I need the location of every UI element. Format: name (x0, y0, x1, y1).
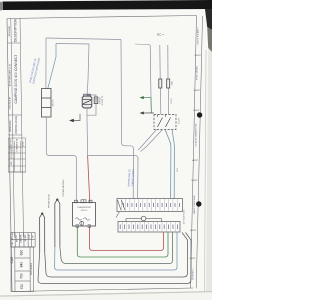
capacitor C1 (94, 97, 98, 104)
right margin strip (189, 16, 202, 289)
wire: motor bottom down (86, 108, 88, 119)
svg-text:840: 840 (20, 262, 24, 268)
svg-text:630: 630 (20, 250, 24, 256)
wire: inner loop top horizontal (56, 43, 89, 46)
long empty column (9, 171, 26, 173)
wire: outer loop right vertical and jog to strip (121, 40, 134, 199)
svg-text:REVISION: REVISION (9, 25, 11, 36)
svg-text:0.47uF: 0.47uF (99, 96, 101, 103)
wire: stub below strip X1 left end (116, 212, 120, 218)
svg-text:15A: 15A (171, 81, 174, 85)
title strip texts (rotated) (8, 18, 18, 134)
label: capacitor value (99, 95, 104, 105)
wire: red return (module to strip X2) (90, 226, 164, 251)
relay K2 (dashed box with contacts) (154, 115, 176, 130)
svg-text:DWG No: DWG No (12, 233, 14, 241)
wire: outer loop top horizontal (46, 38, 121, 40)
indicator A1 (meter circle) (141, 216, 146, 221)
wire: relay out to cyan pair 1 (165, 130, 171, 199)
module U1 (control thermostat) (73, 200, 96, 228)
wire: mid horizontal from motor line to strip entry (88, 156, 138, 199)
svg-text:4X0.75: 4X0.75 (53, 99, 55, 107)
wire: probe E2 right lead to strip X2 (60, 233, 173, 264)
drawing frame (7, 16, 197, 292)
arrow: supply tap upper (green) (140, 96, 152, 113)
svg-text:DATE: DATE (10, 147, 13, 153)
svg-text:12V DC: 12V DC (80, 210, 88, 212)
arrow: supply tap lower (140, 112, 155, 115)
svg-text:S3XX SERIES: S3XX SERIES (31, 262, 33, 275)
svg-text:CAD: CAD (10, 256, 14, 263)
svg-text:DC +: DC + (157, 33, 164, 37)
wire: probe E1 right lead long return (45, 233, 188, 278)
svg-text:12 POLE PLUG: 12 POLE PLUG (184, 209, 186, 224)
svg-text:CABLE 2.5MM TWIN: CABLE 2.5MM TWIN (193, 195, 196, 214)
wire: relay out diagonal to strip entry (138, 130, 157, 151)
svg-text:730: 730 (20, 273, 24, 279)
wire: inner loop left vertical with diagonal into connector (48, 44, 56, 89)
svg-text:WIRING DIAG: WIRING DIAG (14, 116, 18, 134)
bottom-left DWG table (11, 233, 35, 292)
svg-text:DRAWN GB: DRAWN GB (16, 138, 19, 149)
hole punch top (197, 112, 202, 117)
probe E1 (left sensor electrode) (40, 213, 45, 253)
svg-text:CHKD: CHKD (22, 141, 24, 147)
wire: motor to module (red lower section) (86, 119, 89, 156)
probe E2 (right sensor electrode) (55, 199, 60, 248)
wire: inner loop right vertical to motor (87, 44, 89, 96)
label: blue cable note upper left (28, 57, 42, 85)
wire: motor top branch to capacitor (87, 95, 96, 97)
hole punch bottom (196, 201, 201, 206)
wire: feed 2 vertical through fuse F1 (159, 45, 161, 79)
svg-text:CHECK POLARITY: CHECK POLARITY (197, 27, 200, 45)
label: blue cable note centre (127, 169, 135, 187)
wire: relay out second diagonal (141, 130, 163, 152)
svg-text:A3 SHEET 1: A3 SHEET 1 (192, 267, 195, 279)
svg-text:12V: 12V (177, 168, 179, 172)
svg-text:PROBE BROWN: PROBE BROWN (63, 179, 65, 196)
wire: outer loop left vertical to connector (45, 38, 47, 89)
wire: feed 3 vertical through fuse F2 (167, 45, 169, 79)
svg-text:720: 720 (20, 284, 24, 290)
svg-text:2X2.5: 2X2.5 (171, 97, 173, 103)
svg-text:DATE: DATE (20, 237, 23, 243)
right scan dark wedge (205, 9, 212, 30)
wire: feed link stub (135, 43, 150, 46)
fuse F1 (159, 79, 162, 88)
page bottom shadow (0, 291, 212, 297)
svg-text:CHECKED BY: CHECKED BY (10, 96, 12, 110)
svg-text:CAMPING 300S 400 CONNECT: CAMPING 300S 400 CONNECT (14, 55, 18, 104)
terminal screws X1 (124, 203, 180, 207)
svg-text:FUSE 15A MAX: FUSE 15A MAX (196, 65, 199, 80)
motor M1 (82, 94, 92, 108)
connector K1 (3-way fuse holder) (42, 89, 52, 118)
paper background (0, 0, 212, 300)
wire: probe E2 left lead to strip X2 (cyan) (55, 233, 177, 271)
left title strip columns (7, 18, 23, 237)
scanner black bar top (3, 0, 212, 10)
svg-text:DESCRIPTION: DESCRIPTION (14, 18, 18, 42)
svg-text:10.02: 10.02 (17, 148, 19, 153)
title sub-table (scale/date block) (8, 138, 25, 172)
terminal screws X2 (120, 225, 177, 230)
terminal strip X1 (upper) (116, 199, 183, 218)
svg-text:TO AVOID DAMAGE USE: TO AVOID DAMAGE USE (194, 123, 197, 147)
svg-text:APPR: APPR (10, 153, 13, 159)
svg-text:PROBE BLUE: PROBE BLUE (49, 193, 51, 208)
svg-text:APPROVED: APPROVED (9, 120, 12, 132)
fuse F2 (167, 79, 170, 88)
wire: connector K1 bottom to module pin 1 (46, 117, 76, 203)
svg-text:AS SHOWN DATE 10-02: AS SHOWN DATE 10-02 (8, 63, 11, 86)
arrow: rotation direction pointer (69, 114, 80, 122)
wire: capacitor bottom loop back to motor bottom (87, 104, 96, 116)
svg-text:THERMOSTAT: THERMOSTAT (77, 206, 91, 209)
svg-text:K 12V: K 12V (179, 117, 181, 123)
wire: probe E1 left lead long return (38, 233, 191, 284)
wire: green return (module to strip X2) (77, 226, 168, 257)
svg-text:M 6X0.75: M 6X0.75 (102, 95, 104, 105)
terminal strip X2 (lower) (118, 216, 180, 232)
wire: relay out to cyan pair 2 (172, 130, 174, 199)
wire: feed 1 vertical to arrows junction (150, 45, 151, 113)
